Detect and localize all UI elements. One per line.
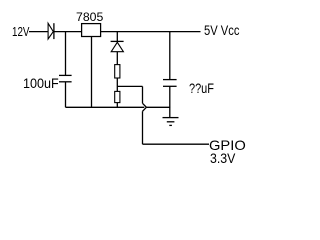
ground symbol (163, 118, 179, 126)
resistor R2 (115, 91, 120, 102)
wire R1 to R2 (116, 78, 118, 91)
wire 7805 ground pin down to bus (91, 37, 93, 108)
label 3.3V (210, 151, 235, 165)
label ??uF (189, 82, 214, 96)
wire C2 bottom lead to ground (169, 86, 171, 117)
wire 12V input feed (29, 31, 48, 33)
label 100uF (23, 76, 59, 90)
label 7805 (76, 11, 103, 23)
resistor R1 (115, 65, 120, 78)
wire D1 cathode to 7805 input (54, 31, 81, 33)
diode D1 (series input diode, anode left) (48, 23, 54, 39)
wire 5V rail branch down to C2 (169, 32, 171, 80)
wire D2 anode to R1 (116, 52, 118, 65)
regulator U1 7805 body (82, 24, 101, 37)
label GPIO (209, 138, 246, 152)
wire GPIO output lead (143, 143, 210, 145)
wire 5V rail branch down to D2 (116, 32, 118, 42)
wire C1 bottom lead to ground bus (65, 82, 67, 108)
wire 7805 output to 5V Vcc (101, 31, 201, 33)
wire tap branch down to GPIO corner (142, 111, 144, 144)
label 12V input (12, 26, 29, 39)
wire ground bus (66, 106, 171, 108)
wire divider tap to the right (117, 85, 142, 87)
capacitor C2 ??uF plates (163, 80, 177, 87)
wire crossover hop over ground bus (143, 103, 147, 111)
wire R2 bottom to ground bus (116, 103, 118, 108)
wire tap branch down to crossover (142, 86, 144, 103)
wire node input-cap branch down (65, 32, 67, 76)
diode D2 (cathode bar up, triangle pointing up) (111, 41, 124, 51)
label 5V Vcc (204, 23, 239, 37)
capacitor C1 100uF plates (59, 75, 72, 81)
